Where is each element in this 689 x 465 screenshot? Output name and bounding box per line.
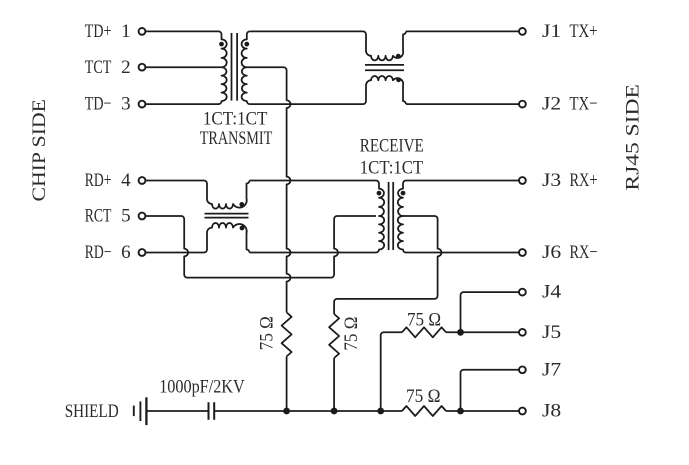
pin terminal 1 — [139, 28, 146, 35]
label R3 75 Ω — [407, 309, 441, 330]
pin terminal J5 — [519, 329, 526, 336]
svg-text:RECEIVE: RECEIVE — [360, 136, 424, 157]
svg-text:RX+: RX+ — [570, 170, 598, 191]
wire RD- to L2 — [145, 252, 204, 254]
wire L1 top to J1 — [406, 30, 519, 32]
transformer T1 core — [232, 33, 238, 101]
svg-text:1CT:1CT: 1CT:1CT — [203, 109, 268, 130]
wire L2 top to T2 primary top — [250, 180, 377, 182]
wire TD+ to T1 — [145, 30, 218, 32]
transformer T1 primary polarity dot — [219, 42, 224, 47]
svg-text:1000pF/2KV: 1000pF/2KV — [159, 377, 245, 398]
wire T2 secondary center tap down to R2 — [334, 216, 441, 314]
svg-text:RX−: RX− — [570, 242, 598, 263]
choke L1 core — [365, 65, 404, 70]
wire R1 to ground rail — [286, 356, 288, 411]
pin label J7 — [542, 359, 561, 380]
wire RCT to T2 primary center tap (passes under RD- wire) — [145, 216, 376, 278]
label 1CT:1CT (receive) — [360, 158, 424, 179]
svg-text:TRANSMIT: TRANSMIT — [200, 128, 273, 149]
pin terminal J4 — [519, 289, 526, 296]
svg-text:RCT: RCT — [85, 206, 112, 227]
pin terminal 6 — [139, 249, 146, 256]
svg-text:J1: J1 — [542, 21, 561, 42]
resistor R4 75ohm (J7/J8 termination) — [402, 406, 446, 416]
svg-text:TX+: TX+ — [570, 21, 598, 42]
label RECEIVE — [360, 136, 424, 157]
svg-text:RJ45 SIDE: RJ45 SIDE — [623, 84, 644, 190]
junction node rail-R2 — [331, 408, 338, 415]
shield terminal short bar — [133, 406, 135, 417]
pin label J1 TX+ — [542, 21, 598, 42]
shield terminal middle bar — [139, 401, 141, 421]
junction node rail-R3 drop — [377, 408, 384, 415]
pin terminal J3 — [519, 177, 526, 184]
wire TD- to T1 — [145, 103, 218, 105]
wire R2 to ground rail — [333, 358, 335, 411]
pin label RD+ 4 — [85, 170, 131, 191]
wire R3 to J5 — [446, 331, 519, 333]
pin label TD− 3 — [85, 94, 131, 115]
pin terminal J6 — [519, 249, 526, 256]
label TRANSMIT — [200, 128, 273, 149]
pin label J2 TX− — [542, 94, 598, 115]
label R2 75 Ω — [341, 317, 362, 351]
choke L2 top polarity dot — [239, 202, 244, 207]
wire RD+ to L2 — [145, 180, 204, 182]
wire rail R4 to J8 — [446, 410, 519, 412]
svg-text:J2: J2 — [542, 94, 561, 115]
wire shield to C1 — [146, 410, 208, 412]
label R4 75 Ω — [406, 386, 441, 407]
pin label RCT 5 — [85, 206, 131, 227]
pin label J8 — [542, 401, 561, 422]
wire T1 secondary top to L1 — [250, 30, 363, 32]
wire T2 secondary top to J3 — [406, 180, 519, 182]
junction node rail-J7/J8 — [457, 408, 464, 415]
wire J7 branch — [461, 370, 519, 411]
choke L1 top polarity dot — [396, 54, 401, 59]
pin label RD− 6 — [85, 242, 131, 263]
label CHIP SIDE — [29, 99, 50, 201]
transformer T1 secondary winding (right) — [242, 31, 250, 104]
transformer T1 primary winding (left) — [219, 31, 227, 104]
svg-text:J3: J3 — [542, 170, 561, 191]
choke L1 top winding — [363, 31, 406, 60]
choke L1 bottom polarity dot — [396, 77, 401, 82]
svg-text:6: 6 — [121, 242, 131, 263]
pin terminal 2 — [139, 64, 146, 71]
svg-text:1: 1 — [121, 21, 131, 42]
wire TCT to T1 center tap — [145, 66, 221, 68]
choke L2 bottom polarity dot — [240, 226, 245, 231]
wire T1 secondary bottom to L1 (passes under center-tap drop) — [250, 103, 363, 105]
wire C1 to ground rail — [214, 410, 402, 412]
svg-text:J5: J5 — [542, 322, 561, 343]
pin terminal J2 — [519, 101, 526, 108]
svg-text:J8: J8 — [542, 401, 561, 422]
svg-text:75 Ω: 75 Ω — [341, 317, 362, 351]
wire L2 bottom to T2 primary bottom — [250, 252, 377, 254]
pin terminal J8 — [519, 408, 526, 415]
svg-text:TX−: TX− — [570, 94, 598, 115]
pin terminal 5 — [139, 213, 146, 220]
svg-text:2: 2 — [121, 57, 131, 78]
wire T1 center tap down to R1 (hops 4 wires) — [247, 67, 291, 312]
svg-text:SHIELD: SHIELD — [65, 401, 119, 422]
label RJ45 SIDE — [623, 84, 644, 190]
choke L1 bottom winding — [363, 76, 406, 104]
svg-text:75 Ω: 75 Ω — [257, 316, 278, 350]
svg-text:CHIP SIDE: CHIP SIDE — [29, 99, 50, 201]
choke L2 bottom winding — [204, 223, 250, 252]
svg-text:TD−: TD− — [85, 94, 112, 115]
svg-text:RD+: RD+ — [85, 170, 112, 191]
transformer T2 primary polarity dot — [377, 191, 382, 196]
resistor R3 75ohm (J4/J5 termination) — [402, 327, 446, 337]
svg-text:TD+: TD+ — [85, 21, 112, 42]
choke L2 top winding — [204, 181, 250, 209]
junction node rail-R1 — [283, 408, 290, 415]
svg-text:5: 5 — [121, 206, 131, 227]
svg-text:4: 4 — [121, 170, 131, 191]
junction node J4/J5-R3 — [457, 329, 464, 336]
pin label J6 RX− — [542, 242, 598, 263]
label R1 75 Ω — [257, 316, 278, 350]
pin label J4 — [542, 282, 562, 303]
svg-text:J4: J4 — [542, 282, 562, 303]
resistor R2 75ohm (RX center tap termination) — [329, 314, 339, 358]
transformer T2 secondary polarity dot — [401, 191, 406, 196]
svg-text:J7: J7 — [542, 359, 561, 380]
label 1CT:1CT (transmit) — [203, 109, 268, 130]
shield terminal long bar — [145, 397, 147, 425]
resistor R1 75ohm (TX center tap termination) — [282, 312, 292, 356]
svg-text:75 Ω: 75 Ω — [406, 386, 441, 407]
wire rail up to R3 — [381, 332, 402, 411]
pin terminal 3 — [139, 101, 146, 108]
svg-text:TCT: TCT — [85, 57, 112, 78]
transformer T2 core — [389, 182, 394, 250]
pin label J5 — [542, 322, 561, 343]
capacitor C1 1000pF/2KV — [209, 402, 215, 420]
wire J4 branch — [461, 292, 519, 332]
svg-text:1CT:1CT: 1CT:1CT — [360, 158, 424, 179]
pin label J3 RX+ — [542, 170, 598, 191]
pin terminal 4 — [139, 177, 146, 184]
pin label TCT 2 — [85, 57, 131, 78]
svg-text:3: 3 — [121, 94, 131, 115]
wire T2 secondary bottom to J6 — [406, 252, 519, 254]
pin terminal J1 — [519, 28, 526, 35]
pin label TD+ 1 — [85, 21, 131, 42]
svg-text:RD−: RD− — [85, 242, 112, 263]
svg-text:J6: J6 — [542, 242, 561, 263]
pin terminal J7 — [519, 366, 526, 373]
transformer T1 secondary polarity dot — [244, 42, 249, 47]
wire L1 bottom to J2 — [406, 103, 519, 105]
label 1000pF/2KV — [159, 377, 245, 398]
transformer T2 primary winding (left) — [376, 181, 384, 253]
label SHIELD — [65, 401, 119, 422]
choke L2 core — [205, 214, 249, 218]
transformer T2 secondary winding (right) — [398, 181, 406, 253]
